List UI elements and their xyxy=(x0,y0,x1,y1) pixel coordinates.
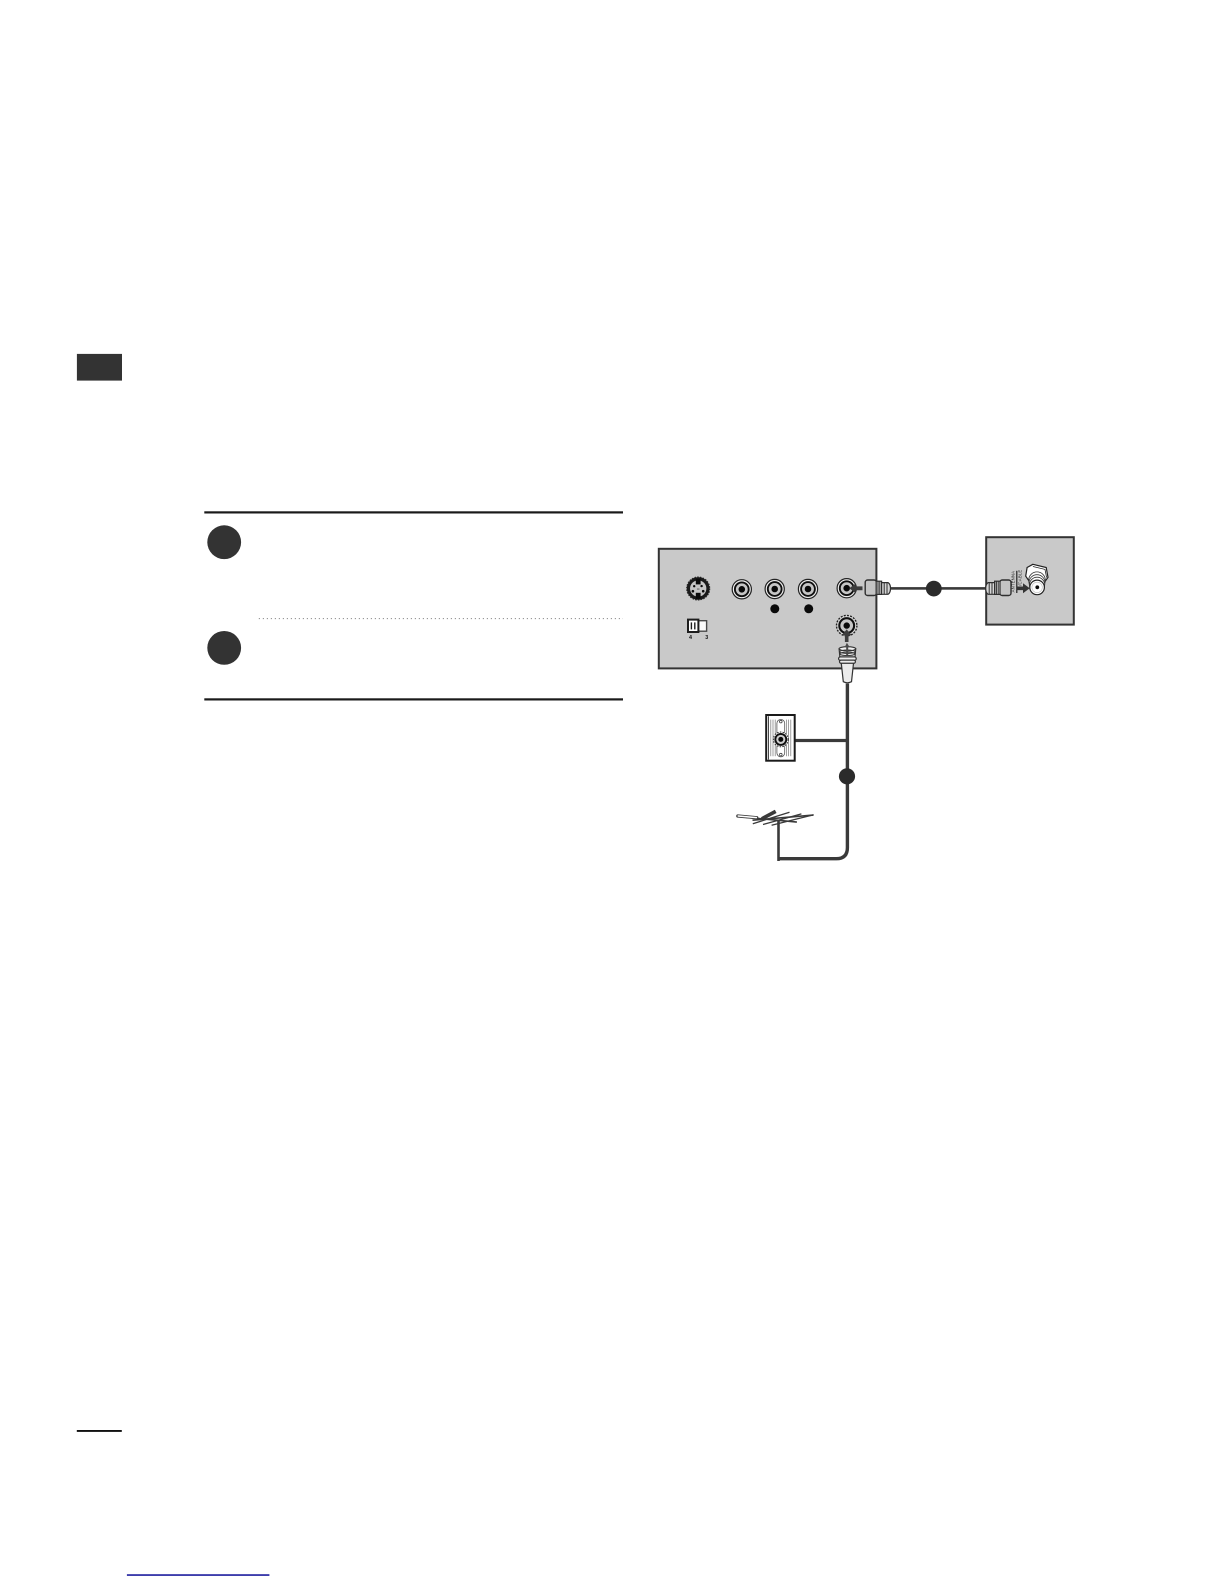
step circle 2 xyxy=(207,631,241,665)
TV F-connector socket xyxy=(1026,564,1048,594)
indicator dot B xyxy=(804,604,813,613)
RF coax cable to TV xyxy=(889,587,987,590)
svg-text:3: 3 xyxy=(705,635,708,641)
RF OUT jack xyxy=(837,579,856,598)
chapter tab xyxy=(77,354,122,381)
footer blue link rule xyxy=(127,1574,270,1576)
channel 3/4 switch xyxy=(688,620,708,641)
RCA jack 3 xyxy=(798,579,817,598)
VCR back panel xyxy=(659,549,877,669)
top rule xyxy=(204,511,623,513)
ANT IN jack xyxy=(837,615,857,635)
wall jack wire xyxy=(795,739,848,742)
antenna F-plug xyxy=(839,643,857,683)
antenna cable down xyxy=(779,684,848,859)
step circle 1 xyxy=(207,525,241,559)
wall antenna jack xyxy=(766,715,795,761)
bottom rule xyxy=(204,698,623,700)
svg-text:/CABLE: /CABLE xyxy=(1018,570,1023,586)
TV side panel xyxy=(986,537,1074,624)
S-Video jack xyxy=(687,577,710,600)
arrow into RF OUT xyxy=(849,584,862,594)
arrow up into ANT IN xyxy=(842,629,852,642)
svg-text:4: 4 xyxy=(689,635,692,641)
RCA jack 1 xyxy=(732,580,751,599)
coax junction dot xyxy=(926,581,942,597)
dotted rule xyxy=(259,618,623,620)
RCA jack 2 xyxy=(765,579,784,598)
coax plug at VCR xyxy=(865,580,890,596)
footer short rule xyxy=(77,1430,122,1432)
cable junction dot xyxy=(839,768,855,784)
svg-text:ANTENNA: ANTENNA xyxy=(1011,571,1016,593)
indicator dot A xyxy=(770,604,779,613)
arrow into TV socket xyxy=(1017,583,1030,593)
outdoor antenna xyxy=(738,811,814,861)
coax plug at TV xyxy=(986,580,1011,596)
ANTENNA/CABLE label xyxy=(1011,570,1023,593)
